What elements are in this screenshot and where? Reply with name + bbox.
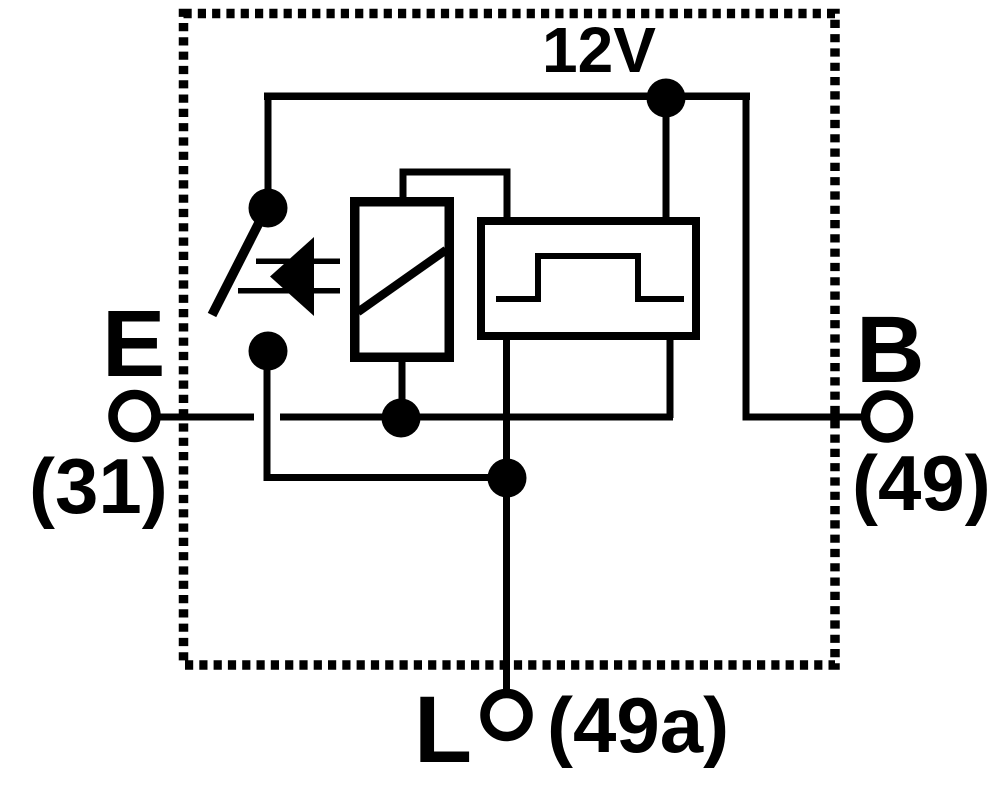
node switch top contact <box>249 189 288 228</box>
svg-text:E: E <box>102 291 165 397</box>
wire right vertical down to B <box>743 93 750 418</box>
relay coil diagonal <box>358 250 446 312</box>
switch lever <box>212 211 265 315</box>
svg-text:(49): (49) <box>852 439 991 527</box>
pulse waveform top <box>535 253 641 259</box>
junction dot main wire <box>382 399 421 438</box>
actuation arrow upper line <box>256 259 340 265</box>
svg-text:B: B <box>856 297 925 403</box>
svg-text:(31): (31) <box>29 442 168 530</box>
wire coil bracket horizontal <box>400 169 511 176</box>
pulse waveform baseline left <box>496 296 541 302</box>
terminal L open circle <box>485 694 528 737</box>
relay coil K1 box <box>355 202 450 358</box>
wire left vertical rail to switch top contact <box>265 93 272 211</box>
terminal E open circle <box>113 395 156 438</box>
wire switch bottom down <box>264 351 271 481</box>
wire main horizontal middle segment <box>280 414 673 421</box>
wire coil bracket vertical down to pulse box <box>504 169 511 222</box>
wire node down to pulse box top <box>663 96 670 221</box>
wire coil bottom stub <box>399 358 406 413</box>
wire B horizontal <box>743 414 863 421</box>
actuation arrow head (points left at lever) <box>270 237 314 316</box>
wire top rail from switch to B corner <box>264 93 750 101</box>
svg-text:12V: 12V <box>542 14 656 86</box>
node 12V supply junction <box>647 79 686 118</box>
pulse waveform falling edge <box>635 253 641 302</box>
wire horizontal to L junction <box>264 474 511 481</box>
junction dot L node <box>488 459 527 498</box>
pulse waveform baseline right <box>635 296 684 302</box>
wire pulse box bottom-left stub down through L junction <box>503 334 510 694</box>
terminal B open circle <box>866 395 909 438</box>
svg-text:(49a): (49a) <box>547 681 729 769</box>
pulse generator U1 box <box>481 221 696 336</box>
pulse waveform rising edge <box>535 253 541 302</box>
svg-text:L: L <box>414 677 472 783</box>
actuation arrow lower line <box>238 288 340 294</box>
wire main horizontal E-side segment <box>155 414 254 421</box>
wire coil top stub <box>400 170 407 201</box>
wire pulse box bottom-right stub down to main wire <box>667 334 674 418</box>
relay enclosure dotted border <box>184 14 836 666</box>
node switch bottom contact <box>249 332 288 371</box>
